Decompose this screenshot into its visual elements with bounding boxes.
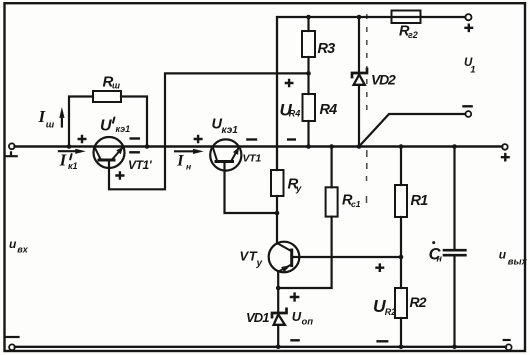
wire VT1' base loop (109, 73, 309, 189)
wire Ry column (276, 196, 278, 244)
junction R1 on rail (399, 144, 404, 149)
wire VT1 base to node (225, 162, 278, 214)
crease artifact dashes (366, 14, 368, 203)
minus VT1' right low (129, 151, 140, 153)
svg-text:г2: г2 (408, 30, 418, 40)
svg-text:кэ1: кэ1 (222, 125, 239, 136)
current arrow In (175, 150, 194, 152)
wire Rsh right leg (121, 97, 147, 147)
junction VD2 on top bus (357, 15, 362, 20)
svg-text:н: н (186, 162, 191, 172)
svg-text:VD2: VD2 (371, 72, 396, 88)
svg-text:к1: к1 (68, 161, 78, 171)
svg-text:VT1: VT1 (243, 153, 262, 165)
resistor Rg2 (392, 11, 421, 24)
wire main horizontal rail (15, 145, 503, 147)
wire Rc1 bottom to VTu emitter (278, 217, 331, 288)
svg-text:оп: оп (302, 317, 314, 328)
resistor R1 (395, 185, 407, 217)
arrowhead In (193, 149, 204, 154)
current arrow Ish (61, 113, 63, 127)
wire R3 top lead (307, 17, 309, 31)
node VTu base / R1-R2 (399, 255, 404, 260)
svg-text:U: U (292, 309, 302, 324)
minus Uop (290, 339, 300, 341)
resistor Rc1 (326, 187, 338, 216)
svg-text:u: u (9, 237, 17, 251)
junction R4 on rail (306, 144, 311, 149)
minus mid-right output (462, 105, 473, 107)
terminal main rail right (502, 144, 508, 150)
minus UR4 (287, 138, 296, 140)
svg-text:I: I (59, 150, 68, 169)
svg-text:R4: R4 (320, 102, 338, 118)
plus/minus polarity marks (78, 24, 510, 342)
current arrow Ik1' (59, 150, 77, 152)
svg-text:U: U (100, 117, 112, 134)
svg-text:кэ1: кэ1 (116, 124, 131, 134)
wire R1 top lead (400, 147, 402, 186)
svg-text:ш: ш (112, 81, 120, 91)
junction R3 on top bus (306, 15, 311, 20)
resistor R3 (302, 31, 315, 57)
wire diagonal to minus output (359, 114, 465, 147)
ground tick below input (6, 152, 17, 156)
minus VT1 right (246, 138, 257, 140)
terminal bottom-left (9, 344, 15, 350)
wire R3-R4 link (307, 57, 309, 94)
wire Rc1 top lead (331, 147, 333, 188)
svg-text:R2: R2 (410, 294, 427, 310)
tick above bottom-right terminal (504, 339, 510, 341)
resistor Ry (271, 170, 284, 196)
svg-text:с1: с1 (351, 199, 361, 209)
terminal input left (9, 143, 15, 149)
svg-text:u: u (499, 247, 507, 261)
svg-text:R2: R2 (385, 307, 397, 317)
arrowhead Ish (59, 107, 64, 118)
node VTu emitter / Rc1 (276, 286, 281, 291)
arrowhead Ik1' (75, 149, 86, 154)
junction Rsh left on rail (67, 144, 72, 149)
plus UR2 (375, 263, 384, 272)
plus VT1' bottom (115, 171, 124, 180)
svg-text:н: н (437, 254, 443, 264)
wire VD2 column (358, 17, 360, 147)
tick above bottom-left terminal (7, 336, 19, 338)
resistor R2 (395, 288, 407, 318)
zener diode VD1 (272, 309, 287, 325)
wire R4 bottom lead (307, 121, 309, 147)
terminal minus output (465, 111, 471, 117)
junction Rsh right on rail (145, 144, 150, 149)
svg-text:VT: VT (240, 248, 258, 263)
svg-text:1: 1 (470, 64, 475, 75)
plus VT1' left (78, 135, 87, 144)
junction VD2 on rail (357, 144, 362, 149)
wire bottom bus (15, 346, 506, 348)
terminal bottom-right (506, 344, 512, 350)
plus VT1 left (194, 135, 203, 144)
terminal plus output top-right (465, 14, 471, 20)
capacitor Cn (453, 147, 455, 250)
wire R2 bottom lead (400, 318, 402, 347)
plus UR4 (285, 79, 294, 88)
svg-text:I: I (176, 153, 184, 170)
wire VTu emitter down (277, 272, 279, 347)
junction Rc1 on rail (329, 144, 334, 149)
svg-text:R1: R1 (411, 193, 429, 209)
junction VD1 on bottom bus (276, 345, 281, 350)
transistor VT1 (210, 139, 241, 170)
svg-text:R3: R3 (318, 41, 336, 57)
wire R1 bottom lead (400, 217, 402, 288)
svg-text:вх: вх (17, 244, 28, 254)
wire top bus (277, 17, 465, 170)
svg-text:у: у (256, 258, 263, 269)
junction Cn on bottom bus (452, 345, 457, 350)
plus main rail right (501, 153, 510, 162)
junction Cn on rail (452, 144, 457, 149)
svg-text:VT1': VT1' (128, 158, 153, 172)
svg-text:VD1: VD1 (246, 310, 269, 325)
wire VTu base line (292, 256, 401, 258)
transistor VT1' (94, 137, 125, 168)
svg-text:R4: R4 (289, 108, 301, 118)
node R3-R4 (306, 71, 311, 76)
plus top-right output (464, 24, 473, 33)
resistor R4 (303, 94, 316, 121)
node VT1 base / Ry (275, 211, 280, 216)
minus UR2 (376, 340, 388, 342)
wire Rsh left leg (69, 97, 93, 147)
svg-text:у: у (295, 183, 302, 194)
svg-text:ш: ш (46, 119, 55, 130)
plus Uop (290, 292, 300, 301)
svg-text:вых: вых (508, 257, 528, 268)
transistor VTu (control) (269, 242, 300, 273)
resistor Rsh (93, 91, 121, 102)
junction R2 on bottom bus (399, 345, 404, 350)
minus VT1' right top (130, 137, 141, 139)
